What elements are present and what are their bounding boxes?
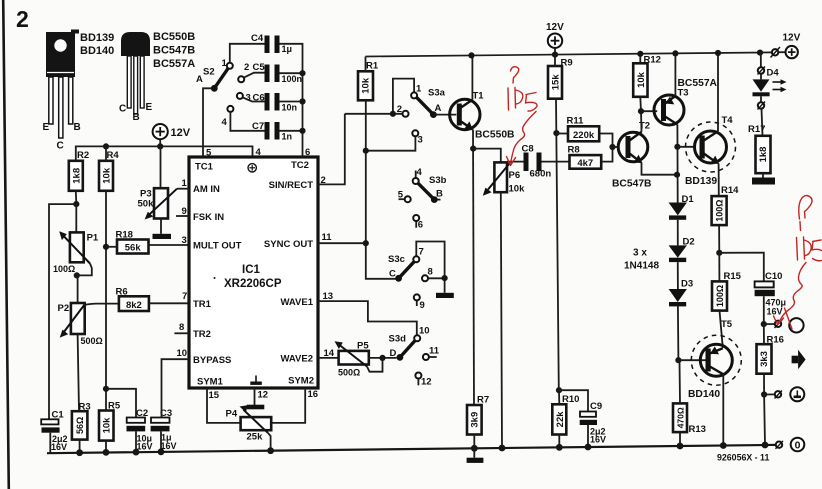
transistor T1 BC550B [450, 91, 515, 141]
svg-text:0: 0 [795, 440, 801, 452]
resistor R8 [568, 145, 613, 169]
diode D2 [669, 237, 695, 263]
wire D3 to T5 base node [677, 306, 680, 360]
resistor R16 [757, 324, 784, 394]
wire R4 bottom down to R5 [105, 191, 107, 411]
pin 15 wire SYM1 to P4 [207, 388, 241, 423]
svg-text:WAVE1: WAVE1 [280, 297, 313, 308]
svg-text:15k: 15k [551, 74, 562, 91]
node rail P6 [499, 445, 506, 452]
node rail T3 [672, 50, 678, 56]
wire node to P6 top [473, 149, 501, 163]
supply symbol 12V top center [546, 22, 564, 55]
svg-text:MULT OUT: MULT OUT [193, 241, 242, 252]
svg-text:1μ: 1μ [282, 44, 293, 54]
node P1 wiper / P2 [74, 272, 80, 278]
svg-text:4: 4 [256, 147, 262, 158]
transistor T4 BD139 [685, 115, 736, 187]
svg-text:TC2: TC2 [291, 160, 309, 171]
svg-text:1n: 1n [282, 132, 293, 142]
wire C1 branch [49, 204, 76, 419]
node rail T4 [715, 50, 721, 56]
pin 12 wire to P4 wiper [254, 388, 256, 406]
resistor R13 [673, 360, 706, 446]
diode D1 [669, 194, 695, 220]
resistor R14 [712, 185, 740, 253]
capacitor C4 [251, 33, 303, 157]
wire node to T4 base [677, 146, 694, 148]
svg-text:10: 10 [177, 348, 188, 359]
svg-text:10: 10 [419, 326, 430, 337]
terminal 0 bottom right [776, 438, 805, 452]
resistor R9 [548, 55, 573, 99]
svg-text:16V: 16V [590, 435, 606, 445]
capacitor C2 (electrolytic) [127, 408, 153, 452]
wire D1 to D2 [677, 220, 679, 246]
node R12 / T2 collector / T3 base [638, 108, 644, 114]
resistor R15 [712, 253, 742, 311]
pin 14 wire WAVE2 to P5 [318, 357, 339, 359]
svg-text:4k7: 4k7 [577, 158, 593, 169]
node rail R13 [677, 443, 684, 450]
svg-text:C: C [57, 141, 64, 152]
capacitor C7 [230, 112, 302, 142]
svg-text:1k8: 1k8 [758, 147, 769, 163]
resistor R4 [99, 146, 119, 190]
output arrow symbol [792, 350, 806, 370]
transistor T5 BD140 [678, 319, 741, 400]
wire R2 bottom to node [75, 191, 78, 204]
svg-text:3: 3 [182, 235, 187, 246]
svg-text:SYM2: SYM2 [288, 376, 314, 387]
resistor R17 [748, 124, 771, 178]
resistor R10 [552, 390, 579, 447]
svg-text:10k: 10k [636, 71, 647, 88]
svg-text:3k3: 3k3 [759, 351, 770, 367]
svg-text:S2: S2 [203, 67, 215, 78]
switch S3d [389, 326, 440, 388]
svg-text:22k: 22k [555, 411, 566, 428]
svg-text:12: 12 [258, 390, 269, 401]
svg-text:T4: T4 [722, 115, 734, 126]
svg-text:8: 8 [428, 267, 433, 278]
svg-text:TC1: TC1 [195, 162, 214, 173]
svg-text:1N4148: 1N4148 [624, 261, 659, 272]
svg-text:7: 7 [182, 291, 187, 302]
capacitor C3 (electrolytic) [151, 408, 177, 452]
svg-text:TR2: TR2 [193, 329, 211, 340]
potentiometer P1 [53, 204, 99, 275]
svg-text:16V: 16V [767, 307, 783, 317]
svg-text:P2: P2 [58, 303, 70, 314]
LED D4 [753, 68, 787, 103]
svg-text:R14: R14 [721, 185, 739, 196]
svg-text:5: 5 [206, 148, 212, 159]
svg-text:926056X - 11: 926056X - 11 [717, 453, 769, 463]
red annotation question mark right [799, 196, 812, 231]
red annotation question mark left [511, 67, 519, 83]
svg-text:S3d: S3d [389, 334, 407, 345]
svg-text:XR2206CP: XR2206CP [224, 278, 282, 290]
svg-text:T1: T1 [473, 91, 485, 102]
svg-text:100Ω: 100Ω [714, 199, 724, 221]
svg-text:AM IN: AM IN [193, 184, 220, 195]
potentiometer P4 [226, 405, 272, 451]
svg-text:S3c: S3c [388, 254, 405, 265]
ground below R7 [467, 448, 484, 463]
svg-text:470Ω: 470Ω [675, 407, 685, 428]
switch S3c [388, 242, 454, 312]
ground bar below R17 [752, 178, 775, 185]
node rail R3 [76, 449, 83, 456]
node rail R5 [103, 449, 110, 456]
svg-text:1: 1 [182, 178, 188, 189]
svg-text:D4: D4 [767, 68, 780, 79]
wire +12V rail to pin 4 [76, 146, 253, 160]
red annotation arrow to P6 [511, 112, 537, 164]
svg-text:BC557A: BC557A [153, 58, 195, 70]
node T2 emitter / diode chain [674, 172, 680, 178]
svg-text:10k: 10k [509, 184, 526, 195]
svg-text:D3: D3 [681, 279, 693, 290]
switch S3a [345, 79, 457, 146]
node rail right [762, 442, 769, 449]
pin 11 wire SYNC OUT [318, 242, 366, 244]
svg-text:16V: 16V [137, 441, 153, 451]
resistor R1 [358, 57, 379, 101]
svg-text:220k: 220k [573, 130, 595, 141]
node rail T1 [468, 52, 474, 58]
svg-text:S3b: S3b [429, 175, 447, 186]
svg-text:100Ω: 100Ω [53, 264, 75, 274]
red annotation IDE letters right [797, 237, 822, 261]
capacitor C10 (electrolytic) [755, 271, 786, 324]
red annotation IDE letters left [508, 88, 537, 112]
wire R15 bottom to T5 emitter [720, 311, 723, 348]
node T1 emitter / P6 [470, 146, 476, 152]
svg-text:11: 11 [429, 346, 440, 357]
wire T2 emitter to diode chain [642, 163, 677, 175]
pin 1 wire AM IN [177, 188, 189, 190]
svg-text:50k: 50k [138, 199, 155, 210]
svg-text:P6: P6 [509, 170, 521, 181]
svg-text:SYM1: SYM1 [197, 377, 224, 388]
wire P2 bottom to R3 [78, 334, 79, 411]
pin 9 stub FSK IN [176, 215, 189, 217]
node rail C2 [133, 449, 140, 456]
terminal output signal [764, 318, 804, 332]
resistor R18 [106, 230, 189, 254]
svg-text:E: E [146, 102, 153, 113]
svg-text:SYNC OUT: SYNC OUT [264, 239, 313, 250]
svg-text:12V: 12V [171, 127, 191, 139]
switch S2 [196, 44, 265, 157]
node R1 / S3a contact 3 [363, 148, 369, 154]
svg-text:WAVE2: WAVE2 [280, 354, 313, 365]
svg-text:16V: 16V [51, 442, 67, 452]
svg-text:16: 16 [308, 389, 319, 400]
node 12V rail / P3 [157, 143, 163, 149]
pin 13 wire WAVE1 to S3d contact 10 [318, 301, 417, 335]
wire T4 collector to rail [717, 53, 719, 131]
node rail C3 [158, 448, 165, 455]
wire R1 bottom / contact 3 branch [366, 100, 416, 243]
svg-text:11: 11 [322, 232, 333, 243]
svg-text:P1: P1 [87, 233, 99, 244]
resistor R7 [467, 395, 489, 449]
svg-text:BD140: BD140 [80, 45, 114, 57]
node rail P4 wiper [267, 447, 274, 454]
svg-text:9: 9 [420, 300, 425, 311]
switch S3b [398, 167, 447, 231]
wire T3 collector down / diode chain [676, 125, 678, 203]
resistor R5 [99, 401, 121, 453]
svg-text:A: A [196, 74, 203, 85]
node rail 12V [552, 52, 558, 58]
svg-text:BC550B: BC550B [475, 130, 515, 141]
svg-text:R11: R11 [567, 116, 585, 127]
capacitor C1 (electrolytic) [41, 410, 67, 453]
wire T1 collector to rail [471, 55, 473, 99]
terminal 12V top right [771, 33, 801, 59]
node R16 bottom / ground terminal [761, 391, 767, 397]
svg-text:BD140: BD140 [688, 389, 720, 400]
svg-text:T5: T5 [721, 319, 733, 330]
transistor T3 BC557A [654, 78, 718, 125]
potentiometer P2 [58, 275, 119, 346]
node C5 bus [299, 70, 305, 76]
svg-text:C9: C9 [590, 401, 602, 412]
svg-text:8k2: 8k2 [126, 300, 142, 311]
svg-text:B: B [74, 122, 81, 133]
resistor R11 [567, 116, 613, 148]
node R10 / C9 [556, 387, 562, 393]
wire T2 collector up to node [640, 111, 643, 132]
wire R9 bottom down to R10 [556, 99, 559, 391]
svg-text:100Ω: 100Ω [715, 285, 725, 307]
TO-92 package drawing BC550B/BC547B/BC557A [119, 32, 153, 123]
svg-text:100n: 100n [282, 74, 303, 84]
node R5/C2 branch [103, 386, 109, 392]
capacitor C9 (electrolytic) [559, 390, 606, 447]
node R4/R18 [103, 244, 109, 250]
svg-text:2: 2 [16, 6, 29, 32]
svg-text:2: 2 [244, 62, 249, 73]
node output R14/R15/C10 [716, 250, 722, 256]
svg-text:8: 8 [179, 322, 184, 333]
wire T4 emitter to R14 [718, 164, 720, 197]
svg-text:BC547B: BC547B [153, 45, 195, 57]
node rail T5 [720, 442, 727, 449]
capacitor C6 [243, 93, 303, 113]
wire T1 emitter down to R7 [473, 130, 474, 406]
ground rail bottom [47, 445, 776, 453]
svg-text:TR1: TR1 [193, 299, 212, 310]
svg-text:10k: 10k [102, 417, 113, 434]
node C10 / R16 / output [761, 321, 767, 327]
node rail R7 [471, 445, 478, 452]
svg-text:R4: R4 [107, 150, 120, 161]
svg-text:B: B [133, 112, 140, 123]
node C6 bus [299, 98, 305, 104]
svg-text:12V: 12V [783, 33, 801, 44]
svg-text:500Ω: 500Ω [81, 336, 103, 346]
svg-text:BYPASS: BYPASS [193, 355, 231, 366]
svg-text:10n: 10n [282, 103, 298, 113]
pin 10 wire BYPASS to C3 [162, 359, 190, 417]
svg-text:SIN/RECT: SIN/RECT [269, 180, 314, 191]
svg-text:3 x: 3 x [633, 248, 647, 259]
svg-text:R2: R2 [77, 150, 89, 161]
svg-text:10k: 10k [361, 77, 372, 94]
svg-text:R13: R13 [689, 424, 706, 435]
svg-text:6: 6 [305, 147, 310, 158]
svg-text:7: 7 [419, 247, 424, 258]
pin 16 wire SYM2 to P4 [271, 388, 305, 423]
resistor R3 [72, 402, 91, 453]
node 12V rail / R4 [103, 143, 109, 149]
page border line [3, 0, 9, 489]
node R2/P1/C1 [73, 201, 79, 207]
svg-text:R1: R1 [366, 61, 379, 72]
capacitor C8 [522, 144, 570, 180]
terminal ground reference [764, 387, 804, 401]
svg-text:P4: P4 [226, 409, 238, 420]
wire node to C10 [719, 253, 764, 282]
svg-text:R17: R17 [748, 124, 765, 135]
svg-text:C5: C5 [253, 62, 266, 73]
svg-text:12V: 12V [546, 22, 564, 33]
pin 2 wire SIN/RECT [318, 114, 345, 185]
node T3 collector / T4 base [674, 144, 680, 150]
svg-text:FSK IN: FSK IN [193, 212, 224, 223]
transistor T2 BC547B [612, 121, 652, 190]
svg-text:T3: T3 [678, 88, 689, 99]
resistor R2 [69, 150, 89, 191]
wire node down to rail [763, 395, 766, 446]
svg-text:12: 12 [421, 377, 432, 388]
svg-text:10k: 10k [102, 167, 113, 184]
svg-text:25k: 25k [247, 432, 264, 443]
wire T5 collector to rail [722, 374, 724, 445]
svg-text:680n: 680n [530, 169, 552, 180]
svg-text:S3a: S3a [428, 88, 446, 99]
supply symbol +12V left [153, 124, 191, 146]
pin 8 stub TR2 [174, 332, 189, 334]
wire node to R11 [556, 133, 568, 135]
capacitor C5 [244, 62, 303, 84]
supply rail top [366, 52, 772, 56]
svg-text:500Ω: 500Ω [338, 368, 360, 378]
svg-text:3: 3 [418, 135, 423, 146]
node rail R10 [556, 444, 563, 451]
potentiometer P3 [138, 146, 178, 239]
wire P6 bottom to rail [501, 192, 502, 448]
node T2 base [609, 144, 615, 150]
wire C2 branch [106, 389, 136, 418]
svg-text:C: C [389, 269, 396, 280]
node rail C9 [585, 444, 592, 451]
svg-text:56Ω: 56Ω [75, 417, 85, 434]
wire T3 emitter to rail [674, 53, 676, 96]
resistor R12 [633, 54, 661, 111]
node R9 / R11 [553, 130, 559, 136]
svg-text:C4: C4 [251, 33, 264, 44]
svg-text:BC550B: BC550B [153, 31, 195, 43]
node rail D4 branch [757, 50, 763, 56]
node T5 base / R13 [675, 357, 681, 363]
svg-text:56k: 56k [125, 243, 142, 254]
svg-text:3k9: 3k9 [470, 412, 481, 428]
svg-text:4: 4 [417, 167, 423, 178]
node rail R12 [637, 51, 643, 57]
wire sync node to S3c pole [366, 243, 396, 279]
op-amp / IC1 XR2206CP body [189, 157, 318, 388]
TO-126 package drawing BD139/BD140 [43, 30, 81, 152]
svg-text:C10: C10 [765, 271, 782, 282]
wire D2 to D3 [677, 262, 679, 289]
svg-text:IC1: IC1 [242, 264, 261, 276]
potentiometer P5 [335, 341, 397, 378]
svg-text:E: E [43, 122, 50, 133]
node C7 bus [299, 128, 305, 134]
svg-text:1k8: 1k8 [71, 168, 82, 184]
wire node to T3 base [641, 110, 657, 112]
svg-text:C: C [119, 104, 126, 115]
red annotation arrow to output [778, 263, 807, 324]
svg-text:15: 15 [209, 390, 220, 401]
svg-text:BD139: BD139 [80, 32, 114, 44]
resistor R6 [116, 287, 190, 312]
svg-text:4: 4 [222, 117, 228, 128]
svg-text:BC547B: BC547B [612, 179, 652, 190]
potentiometer P6 [483, 161, 525, 196]
diode D3 [669, 279, 694, 307]
svg-text:BD139: BD139 [685, 176, 717, 187]
connector circle below D4 [758, 102, 766, 136]
connector circle above D4 [758, 53, 766, 75]
node SYNC OUT / S3c pole [363, 240, 369, 246]
node P5 wiper [379, 355, 385, 361]
